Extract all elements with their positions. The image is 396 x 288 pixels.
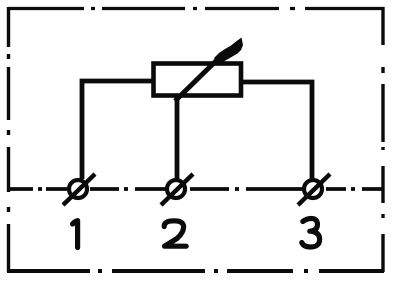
terminal 1 circle bbox=[69, 180, 87, 198]
enclosure frame top (dash-dot) bbox=[8, 7, 384, 10]
chassis line through terminals (dash-dot) bbox=[8, 187, 383, 191]
enclosure frame right (dash-dot) bbox=[381, 7, 384, 272]
terminal 2 slash bbox=[161, 174, 193, 205]
wire: wiper down to terminal 2 bbox=[175, 96, 180, 179]
wire: terminal 1 up and right to resistor left end bbox=[82, 81, 154, 179]
potentiometer arrowhead bbox=[214, 38, 243, 64]
enclosure frame bottom (dash-dot) bbox=[7, 269, 384, 273]
potentiometer wiper arrow shaft bbox=[175, 55, 222, 101]
potentiometer body R bbox=[154, 64, 242, 96]
terminal 2 circle bbox=[167, 180, 185, 198]
label 3 bbox=[302, 219, 320, 247]
terminal 3 slash bbox=[298, 174, 330, 205]
terminal 3 circle bbox=[304, 180, 322, 198]
wire: resistor right end to terminal 3 bbox=[241, 82, 312, 179]
enclosure frame left (dash-dot) bbox=[7, 7, 10, 272]
terminal 1 slash bbox=[63, 174, 95, 205]
label 2 bbox=[164, 221, 186, 246]
label 1 bbox=[73, 221, 78, 248]
